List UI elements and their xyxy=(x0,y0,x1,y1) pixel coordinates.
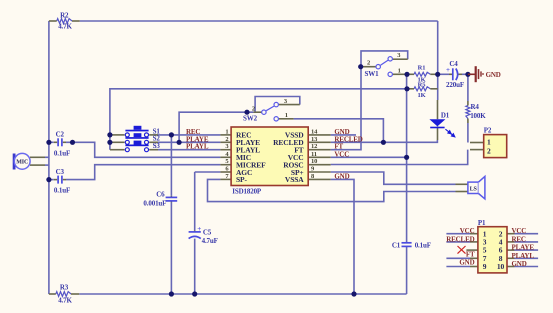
svg-text:4.7K: 4.7K xyxy=(58,296,72,304)
svg-text:RECLED: RECLED xyxy=(446,235,474,243)
svg-text:0.1uF: 0.1uF xyxy=(54,149,70,157)
svg-text:11: 11 xyxy=(311,151,317,158)
svg-text:R1: R1 xyxy=(418,65,426,72)
svg-text:C1: C1 xyxy=(392,241,401,249)
svg-text:4.7K: 4.7K xyxy=(58,23,72,31)
svg-text:LS: LS xyxy=(470,186,478,192)
svg-text:P1: P1 xyxy=(478,219,486,227)
svg-text:+: + xyxy=(197,225,201,233)
svg-text:REC: REC xyxy=(512,235,526,243)
svg-text:VCC: VCC xyxy=(334,150,349,158)
svg-text:R5: R5 xyxy=(418,81,427,88)
svg-text:GND: GND xyxy=(486,71,501,79)
svg-text:10: 10 xyxy=(497,262,505,271)
svg-text:+: + xyxy=(446,66,450,74)
svg-text:GND: GND xyxy=(459,258,474,266)
svg-text:GND: GND xyxy=(512,260,527,268)
svg-text:12: 12 xyxy=(311,143,317,150)
svg-text:FT: FT xyxy=(466,251,475,259)
svg-text:VCC: VCC xyxy=(460,227,475,235)
svg-text:R4: R4 xyxy=(471,103,480,111)
svg-text:VSSA: VSSA xyxy=(285,175,304,184)
svg-text:0.1uF: 0.1uF xyxy=(415,241,431,249)
svg-text:C5: C5 xyxy=(203,229,212,237)
svg-text:0.001uF: 0.001uF xyxy=(143,199,166,207)
svg-text:PLAYE: PLAYE xyxy=(512,244,535,252)
svg-text:P2: P2 xyxy=(484,126,492,134)
svg-text:10: 10 xyxy=(311,158,317,165)
svg-text:9: 9 xyxy=(483,262,487,271)
svg-text:R3: R3 xyxy=(60,284,69,292)
svg-text:1: 1 xyxy=(487,138,491,147)
svg-text:GND: GND xyxy=(334,172,349,180)
svg-text:MIC: MIC xyxy=(16,160,28,166)
svg-text:1: 1 xyxy=(398,68,401,75)
svg-text:14: 14 xyxy=(311,128,318,135)
svg-text:C3: C3 xyxy=(56,168,65,176)
svg-text:R2: R2 xyxy=(60,12,69,20)
svg-text:2: 2 xyxy=(487,147,491,156)
svg-text:2: 2 xyxy=(367,60,370,67)
svg-text:4.7uF: 4.7uF xyxy=(202,237,218,245)
svg-text:0.1uF: 0.1uF xyxy=(54,187,70,195)
svg-text:100K: 100K xyxy=(470,112,486,120)
svg-text:C4: C4 xyxy=(449,60,458,68)
svg-text:2: 2 xyxy=(252,105,255,112)
svg-text:PLAYL: PLAYL xyxy=(186,143,209,151)
svg-text:SW2: SW2 xyxy=(243,114,258,122)
svg-text:SP-: SP- xyxy=(236,175,247,184)
svg-text:PLAYL: PLAYL xyxy=(512,252,535,260)
svg-text:1: 1 xyxy=(225,128,228,135)
svg-text:S3: S3 xyxy=(153,142,161,150)
svg-text:C2: C2 xyxy=(56,131,65,139)
svg-text:D1: D1 xyxy=(441,111,450,119)
svg-text:VCC: VCC xyxy=(512,227,527,235)
svg-text:220uF: 220uF xyxy=(446,81,464,89)
svg-text:ISD1820P: ISD1820P xyxy=(232,187,262,195)
svg-text:SW1: SW1 xyxy=(365,70,380,78)
svg-text:C6: C6 xyxy=(156,190,165,198)
svg-text:1K: 1K xyxy=(417,92,425,99)
svg-text:13: 13 xyxy=(311,136,318,143)
svg-text:2: 2 xyxy=(225,136,228,143)
svg-text:1: 1 xyxy=(285,112,288,119)
